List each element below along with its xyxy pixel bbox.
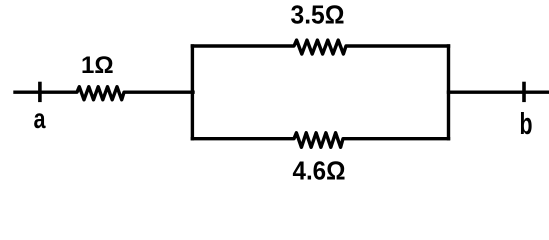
svg-text:3.5Ω: 3.5Ω <box>291 0 345 29</box>
node a terminal tick <box>38 84 42 101</box>
node b terminal tick <box>522 84 526 101</box>
svg-text:4.6Ω: 4.6Ω <box>293 156 346 186</box>
wire left vertical side of parallel block <box>191 46 194 139</box>
wire right lead to terminal b <box>449 90 549 93</box>
resistor R2 3.5Ω top branch wire <box>192 40 448 54</box>
svg-text:a: a <box>34 103 46 134</box>
resistor R3 4.6Ω bottom branch wire <box>192 133 448 148</box>
wire left lead with resistor R1 (terminal a to parallel block) <box>15 87 193 100</box>
wire right vertical side of parallel block <box>447 46 450 139</box>
svg-text:1Ω: 1Ω <box>81 52 114 79</box>
svg-text:b: b <box>520 106 533 141</box>
